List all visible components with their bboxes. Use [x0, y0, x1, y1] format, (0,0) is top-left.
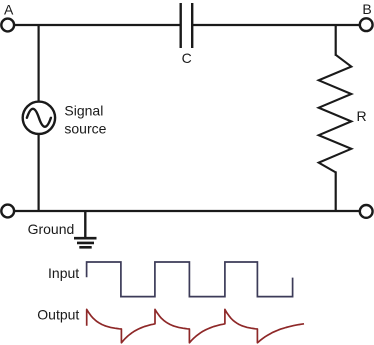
wire top-right (capacitor to B): [192, 24, 359, 26]
wire bottom (left terminal to right terminal): [15, 210, 360, 212]
svg-text:B: B: [362, 1, 371, 17]
svg-text:Output: Output: [37, 307, 79, 323]
svg-text:A: A: [4, 2, 14, 18]
wire right vertical lower (resistor to bottom wire): [335, 171, 337, 211]
svg-text:C: C: [182, 50, 192, 66]
terminal B: [360, 18, 373, 31]
wire top-left (A to capacitor): [15, 24, 181, 26]
svg-text:R: R: [357, 108, 367, 124]
signal source label: [64, 103, 106, 137]
wire junction vertical (top wire to signal source): [37, 25, 39, 102]
wire signal source to bottom wire: [37, 134, 39, 211]
signal source U1 (AC source): [23, 102, 55, 134]
terminal bottom-left: [1, 205, 14, 218]
svg-text:source: source: [64, 120, 106, 136]
wire right vertical upper (top wire to resistor): [335, 25, 337, 56]
wire ground stub: [84, 211, 86, 237]
resistor R: [319, 55, 352, 173]
capacitor C: [181, 3, 193, 48]
output waveform (differentiated spikes): [87, 309, 304, 342]
terminal bottom-right: [360, 205, 373, 218]
svg-text:Ground: Ground: [28, 221, 75, 237]
ground symbol: [74, 238, 97, 247]
svg-text:Input: Input: [48, 265, 79, 281]
svg-text:Signal: Signal: [64, 103, 103, 119]
terminal A: [1, 19, 14, 32]
input waveform (square wave): [87, 262, 293, 297]
